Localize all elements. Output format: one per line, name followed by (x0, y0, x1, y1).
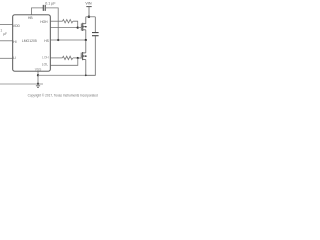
svg-text:HI: HI (13, 40, 16, 44)
svg-text:LOL: LOL (42, 63, 48, 67)
wire gate lead Q1 (78, 27, 82, 29)
Q1 drain tap (83, 23, 86, 25)
Q2 source tap (83, 59, 86, 61)
svg-text:VSS: VSS (35, 68, 42, 72)
Q1 gate bar (80, 23, 82, 30)
wire C3 bottom down to ground rail (86, 36, 96, 75)
wire Q1 source down to HS (85, 30, 87, 40)
svg-text:LMG1205: LMG1205 (22, 39, 37, 43)
Q2 drain tap (83, 52, 86, 54)
VIN terminal bar (86, 6, 91, 8)
node VSS ground rail junction (37, 74, 39, 76)
Q2 body tap (83, 55, 86, 57)
node ground stem junction (37, 83, 39, 85)
node Q2 body-source junction (85, 55, 87, 57)
node switch column HS junction (85, 39, 87, 41)
node VIN rail junction (88, 16, 91, 19)
svg-text:HOH: HOH (40, 20, 48, 24)
wire ground stem (37, 75, 39, 84)
node bootstrap-HS junction (57, 39, 59, 41)
svg-text:HB: HB (28, 16, 33, 20)
wire Q1 drain up to VIN rail (85, 17, 87, 24)
wire LOL stub rising to node B (50, 58, 78, 65)
node B low gate junction (77, 57, 79, 59)
Q1 channel bar (82, 23, 84, 31)
node A high gate junction (77, 26, 79, 28)
svg-text:LI: LI (13, 56, 16, 60)
wire VDD stub (0, 23, 13, 25)
Q2 channel bar (82, 52, 84, 60)
wire VIN rail (86, 16, 96, 18)
wire R2 to gate node B (73, 57, 78, 59)
wire bootstrap cap to switch node (45, 8, 58, 40)
ground symbol (36, 86, 40, 88)
node Q1 body-source junction (85, 26, 87, 28)
svg-text:LOH: LOH (42, 56, 49, 60)
svg-text:HS: HS (44, 39, 49, 43)
resistor R1 high-side gate (63, 20, 73, 23)
transistor Q2 low-side GaN FET (81, 52, 86, 60)
wire VIN rail down to C3 (94, 17, 96, 33)
resistor R2 low-side gate (62, 56, 72, 59)
wire Q2 drain up to switch node (85, 40, 87, 53)
transistor Q1 high-side GaN FET (81, 23, 86, 31)
wire HOL stub (50, 27, 77, 29)
wire HOH stub (50, 20, 62, 22)
wire LOH stub (50, 57, 62, 59)
wire HS stub to switch column (50, 39, 86, 41)
wire gate lead Q2 (78, 57, 81, 59)
svg-text:VIN: VIN (85, 2, 91, 6)
wire HB bootstrap up and right (32, 8, 44, 15)
Q1 body tap (83, 26, 86, 28)
wire ground rail B to left edge (0, 83, 43, 85)
svg-text:0.1 µF: 0.1 µF (45, 1, 56, 5)
Q2 body arrow (82, 55, 85, 57)
svg-text:µF: µF (3, 32, 7, 36)
Q1 body arrow (82, 26, 85, 28)
svg-text:Copyright © 2017, Texas Instru: Copyright © 2017, Texas Instruments Inco… (28, 94, 98, 98)
capacitor C2 0.1uF bootstrap plates (43, 5, 45, 11)
Q1 source tap (83, 29, 86, 31)
wire HI stub (0, 40, 13, 42)
wire VSS stub down (37, 71, 39, 75)
wire LI stub (0, 57, 13, 59)
op-amp U1 : LMG1205 gate driver IC body (13, 15, 51, 71)
wire ground rail A (38, 74, 86, 76)
Q2 gate bar (80, 53, 82, 59)
svg-text:1: 1 (0, 28, 2, 32)
wire Q2 source down to ground rail (85, 60, 87, 76)
node Q2 source rail junction (85, 74, 87, 76)
capacitor C3 input bypass plates (92, 33, 99, 36)
wire R1 to gate node A (73, 21, 78, 27)
wire VIN down to rail (88, 7, 90, 17)
svg-text:VDD: VDD (13, 24, 21, 28)
